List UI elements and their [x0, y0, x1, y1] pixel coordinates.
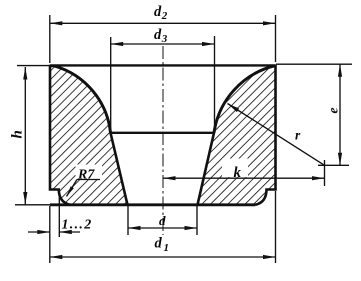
svg-text:3: 3: [161, 33, 168, 45]
svg-text:1: 1: [164, 242, 170, 254]
d extension line right: [196, 206, 198, 235]
d dimension line: [128, 227, 197, 229]
k end tick (arc centre offset): [324, 160, 326, 186]
svg-text:2: 2: [161, 10, 168, 22]
die section right half (hatched body): [198, 66, 276, 205]
d1 extension line left: [49, 206, 51, 263]
vertical centerline: [162, 46, 164, 235]
outline right half: cone wall, radius-r wall, outer edge, step fillet: [198, 66, 276, 205]
h bottom extension line: [15, 204, 50, 206]
svg-text:R7: R7: [77, 168, 95, 183]
white gap in hatching for label k: [222, 159, 248, 178]
outline left half: cone wall, radius-r wall, outer edge, step with R7 fillet: [50, 66, 128, 205]
d2 dimension line: [50, 22, 276, 24]
d1 extension line right: [275, 191, 277, 263]
svg-text:d: d: [154, 4, 162, 20]
d2 extension line right: [275, 15, 277, 62]
1...2 dimension line left part: [28, 231, 50, 233]
svg-text:r: r: [295, 128, 301, 143]
e dimension line: [339, 65, 341, 166]
white gap in hatching for label R7: [76, 165, 103, 180]
top face line: [50, 64, 276, 66]
ledge line (cavity bottom): [111, 132, 215, 134]
top extension line for e: [276, 63, 352, 65]
svg-text:d: d: [155, 236, 163, 252]
svg-text:1...2: 1...2: [62, 218, 93, 233]
bottom face line: [50, 203, 256, 206]
svg-text:e: e: [325, 108, 340, 114]
svg-text:h: h: [10, 130, 26, 138]
d3 extension line right: [214, 36, 216, 131]
d extension line left: [127, 206, 129, 235]
h top extension line: [17, 65, 50, 67]
e bottom extension tick (arc centre height): [318, 164, 349, 166]
die section left half (hatched body): [50, 66, 128, 205]
right funnel arc (radius r surface): [214, 66, 275, 133]
svg-text:d: d: [159, 213, 166, 228]
d1 dimension line: [50, 256, 276, 258]
1...2 dimension line right part: [59, 231, 80, 233]
svg-text:d: d: [154, 27, 162, 43]
left funnel arc (radius r surface): [55, 66, 111, 133]
svg-text:k: k: [234, 165, 242, 181]
h dimension line: [24, 67, 26, 205]
d3 extension line left: [110, 37, 112, 131]
k dimension line: [163, 177, 325, 179]
d3 dimension line: [111, 43, 215, 45]
d2 extension line left: [49, 15, 51, 63]
step extension line (1...2 right): [58, 190, 60, 237]
r radius leader line: [228, 104, 325, 166]
